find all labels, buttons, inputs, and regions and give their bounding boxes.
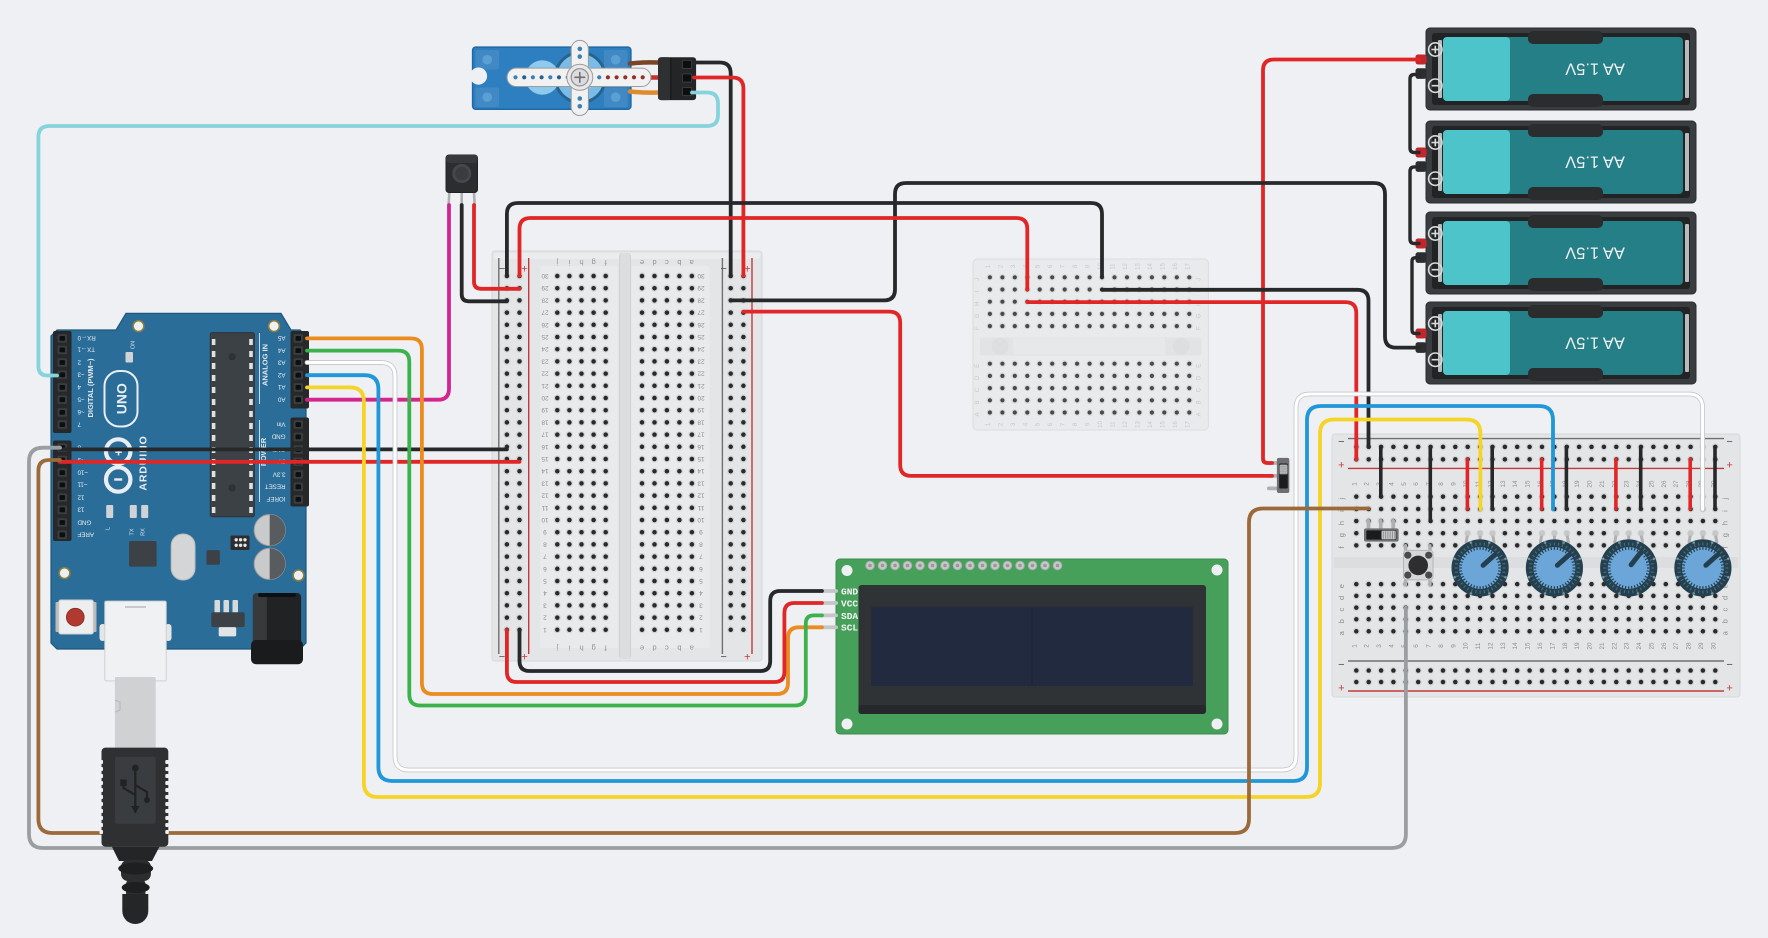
- svg-text:14: 14: [541, 467, 549, 474]
- breadboard BB3 top rail holes: [1353, 443, 1360, 450]
- wire Arduino GND (black) to BB1 left negative rail row16: [60, 447, 507, 451]
- Arduino analog/power header pin sockets: [294, 334, 304, 343]
- potentiometer RV3 pointer: [1631, 553, 1641, 565]
- svg-text:13: 13: [1135, 263, 1141, 270]
- svg-text:9: 9: [543, 528, 547, 535]
- svg-text:26: 26: [697, 321, 705, 328]
- Arduino ICSP header 2: [215, 600, 221, 613]
- svg-text:11: 11: [697, 504, 704, 511]
- svg-text:19: 19: [697, 406, 705, 413]
- servo mount notch: [470, 68, 487, 85]
- svg-text:20: 20: [541, 394, 549, 401]
- svg-text:17: 17: [1185, 263, 1191, 270]
- svg-text:17: 17: [697, 431, 705, 438]
- wire battery series link BAT3- to BAT4+: [1412, 258, 1419, 334]
- svg-text:16: 16: [1173, 263, 1179, 270]
- svg-text:7: 7: [1426, 644, 1433, 648]
- wire Arduino A4 (green) to LCD SDA: [307, 351, 822, 706]
- svg-text:GND: GND: [841, 586, 858, 597]
- battery BAT3 (AA 1.5V): [1426, 212, 1696, 294]
- LCD1 16x2 display board: [836, 559, 1228, 734]
- svg-text:12: 12: [77, 493, 84, 500]
- svg-text:+: +: [1726, 460, 1732, 472]
- svg-text:A: A: [975, 412, 981, 416]
- svg-text:4: 4: [77, 383, 81, 390]
- svg-text:20: 20: [697, 394, 705, 401]
- LCD1 top pin row: [866, 561, 875, 570]
- Arduino L TX RX LEDs: [106, 505, 113, 518]
- svg-text:b: b: [1721, 619, 1730, 623]
- svg-text:4: 4: [699, 589, 703, 596]
- svg-text:c: c: [1721, 607, 1730, 611]
- USB plug face with trident symbol: [115, 757, 156, 824]
- jumper BB3 col22 positive rail to row i (red): [1614, 459, 1618, 509]
- potentiometer RV4 pins: [1689, 534, 1691, 543]
- svg-text:23: 23: [697, 357, 705, 364]
- svg-text:AA 1.5V: AA 1.5V: [1565, 334, 1625, 352]
- svg-text:23: 23: [541, 357, 549, 364]
- svg-text:+: +: [521, 262, 527, 274]
- svg-text:8: 8: [1438, 644, 1445, 648]
- svg-text:15: 15: [1525, 480, 1532, 488]
- jumper BB3 col30 negative rail to row i (black): [1713, 447, 1717, 509]
- svg-text:g: g: [1721, 533, 1730, 537]
- svg-text:15: 15: [697, 455, 705, 462]
- svg-text:−: −: [720, 650, 726, 662]
- svg-text:~5: ~5: [77, 396, 85, 403]
- svg-text:24: 24: [1636, 642, 1643, 650]
- svg-text:8: 8: [699, 540, 703, 547]
- svg-text:5: 5: [699, 577, 703, 584]
- svg-text:29: 29: [1698, 642, 1705, 650]
- svg-text:+: +: [521, 650, 527, 662]
- svg-text:E: E: [1197, 364, 1203, 368]
- potentiometer RV3 pins: [1615, 534, 1617, 543]
- battery BAT1 (AA 1.5V): [1426, 28, 1696, 110]
- svg-text:d: d: [1337, 596, 1346, 600]
- LCD1 left pin stubs: [820, 589, 839, 593]
- svg-text:J: J: [1197, 278, 1203, 281]
- svg-text:G: G: [975, 313, 981, 318]
- Arduino USB-B socket: [100, 624, 107, 641]
- svg-text:TX: TX: [129, 528, 135, 535]
- breadboard BB1 left rail positive line: [528, 258, 530, 654]
- svg-text:26: 26: [1661, 642, 1668, 650]
- svg-text:5: 5: [543, 577, 547, 584]
- breadboard BB3 bottom rail holes: [1353, 667, 1360, 674]
- svg-text:18: 18: [541, 418, 549, 425]
- svg-text:~3: ~3: [77, 371, 85, 378]
- svg-text:+: +: [115, 444, 123, 459]
- svg-text:13: 13: [77, 506, 84, 513]
- wire IR sensor VCC (red) to BB1 left positive rail row29: [474, 205, 520, 289]
- svg-text:27: 27: [1673, 480, 1680, 488]
- svg-text:12: 12: [541, 492, 549, 499]
- svg-text:2: 2: [77, 358, 81, 365]
- svg-text:15: 15: [1525, 642, 1532, 650]
- Arduino capacitor C2: [254, 548, 285, 579]
- svg-text:d: d: [652, 258, 656, 267]
- svg-text:7: 7: [543, 553, 547, 560]
- svg-text:A: A: [1197, 412, 1203, 416]
- servo corner tabs: [476, 50, 500, 70]
- svg-text:12: 12: [1123, 263, 1129, 270]
- svg-text:C: C: [975, 387, 981, 392]
- svg-text:12: 12: [1488, 642, 1495, 650]
- svg-text:16: 16: [541, 443, 549, 450]
- svg-text:2: 2: [1364, 644, 1371, 648]
- battery BAT2 (AA 1.5V): [1426, 121, 1696, 203]
- wire Arduino A5 (orange) to LCD SCL: [307, 338, 822, 694]
- svg-text:27: 27: [697, 309, 705, 316]
- jumper BB3 col7 negative rail to row h (black): [1429, 447, 1433, 521]
- svg-text:TX→1: TX→1: [77, 346, 95, 353]
- breadboard BB3 top rail negative line: [1348, 438, 1724, 440]
- svg-text:g: g: [592, 258, 596, 267]
- svg-text:e: e: [640, 258, 644, 267]
- svg-text:13: 13: [541, 479, 549, 486]
- Arduino digital header block (pins 0-7): [53, 331, 72, 433]
- svg-text:30: 30: [697, 272, 705, 279]
- breadboard BB3 holes rows j-f: [1353, 493, 1360, 500]
- svg-text:d: d: [652, 644, 656, 653]
- jumper BB3 col18 negative rail to row i (black): [1565, 447, 1569, 509]
- svg-text:25: 25: [1648, 642, 1655, 650]
- Arduino analog header block (A5-A0): [291, 331, 310, 409]
- svg-text:−: −: [1338, 659, 1344, 671]
- svg-text:g: g: [592, 644, 596, 653]
- svg-text:6: 6: [699, 565, 703, 572]
- svg-text:2: 2: [543, 614, 547, 621]
- Arduino reset button: [56, 602, 63, 632]
- svg-text:SCL: SCL: [841, 623, 858, 634]
- wire servo signal (cyan) to Arduino pin 3: [38, 93, 718, 376]
- servo horn hub screw: [567, 64, 593, 90]
- svg-text:~10: ~10: [77, 468, 88, 475]
- svg-text:25: 25: [541, 333, 549, 340]
- LCD1 screen: [871, 607, 1193, 686]
- svg-text:D: D: [1197, 375, 1203, 380]
- svg-text:16: 16: [1537, 642, 1544, 650]
- svg-text:−: −: [1338, 436, 1344, 448]
- svg-text:27: 27: [1673, 642, 1680, 650]
- IR receiver U3 pins: [447, 193, 450, 207]
- svg-text:22: 22: [541, 370, 549, 377]
- svg-text:1: 1: [1351, 482, 1358, 486]
- svg-text:c: c: [665, 644, 669, 653]
- svg-text:14: 14: [697, 467, 705, 474]
- svg-text:8: 8: [543, 540, 547, 547]
- pushbutton S1 cap: [1408, 556, 1428, 576]
- svg-text:RX←0: RX←0: [77, 334, 96, 341]
- Arduino UNO mounting holes: [132, 320, 144, 332]
- USB cable shaft: [115, 677, 156, 748]
- svg-text:10: 10: [1463, 642, 1470, 650]
- svg-text:RESET: RESET: [265, 483, 286, 490]
- svg-text:30: 30: [1710, 642, 1717, 650]
- svg-text:3.3V: 3.3V: [272, 470, 286, 477]
- pushbutton S1 body: [1404, 550, 1434, 580]
- breadboard BB2 (mini) body: [973, 259, 1208, 430]
- svg-text:h: h: [579, 644, 583, 653]
- svg-text:24: 24: [541, 345, 549, 352]
- svg-text:−: −: [499, 650, 505, 662]
- breadboard BB1 rail holes: [503, 273, 510, 280]
- LCD1 mounting holes: [842, 565, 853, 576]
- svg-text:SDA: SDA: [841, 611, 858, 622]
- wire BB1 left negative rail to BB2 col10 (black): [507, 203, 1102, 277]
- svg-text:F: F: [1197, 326, 1203, 330]
- wire BB1 left positive rail to BB2 col4 (red): [520, 218, 1028, 290]
- breadboard BB3 bottom rail positive line: [1348, 690, 1724, 692]
- svg-text:J: J: [975, 278, 981, 281]
- svg-text:25: 25: [1648, 480, 1655, 488]
- svg-text:GND: GND: [271, 433, 285, 440]
- svg-text:j: j: [556, 258, 559, 267]
- svg-text:IOREF: IOREF: [266, 495, 285, 502]
- svg-text:DIGITAL (PWM~): DIGITAL (PWM~): [86, 358, 95, 418]
- svg-text:1: 1: [699, 626, 703, 633]
- svg-text:2: 2: [1364, 482, 1371, 486]
- svg-text:+: +: [744, 650, 750, 662]
- svg-text:9: 9: [699, 528, 703, 535]
- svg-text:j: j: [1337, 497, 1346, 500]
- USB plug strain relief: [112, 847, 159, 861]
- svg-text:1: 1: [1351, 644, 1358, 648]
- svg-text:b: b: [677, 644, 681, 653]
- slide switch SW2 knob: [1382, 531, 1396, 539]
- svg-text:19: 19: [1574, 480, 1581, 488]
- svg-text:g: g: [1337, 533, 1346, 537]
- Arduino crystal oscillator: [171, 534, 195, 580]
- breadboard BB3 bottom rail negative line: [1348, 660, 1724, 662]
- svg-text:19: 19: [1574, 642, 1581, 650]
- svg-text:13: 13: [697, 479, 705, 486]
- svg-text:G: G: [1197, 313, 1203, 318]
- svg-text:12: 12: [697, 492, 705, 499]
- svg-text:9: 9: [1450, 644, 1457, 648]
- Arduino capacitor C1: [254, 515, 285, 546]
- svg-text:+: +: [1338, 460, 1344, 472]
- svg-text:c: c: [665, 258, 669, 267]
- breadboard BB1 right half holes (cols a-e): [639, 273, 646, 280]
- svg-text:26: 26: [541, 321, 549, 328]
- breadboard BB1 right rail negative line: [721, 258, 723, 654]
- svg-text:23: 23: [1624, 480, 1631, 488]
- svg-text:3: 3: [699, 601, 703, 608]
- wire IR sensor OUT (magenta) to Arduino A0: [307, 205, 449, 400]
- svg-text:ANALOG IN: ANALOG IN: [261, 344, 270, 386]
- svg-text:Vin: Vin: [276, 420, 285, 427]
- svg-text:23: 23: [1624, 642, 1631, 650]
- servo lead wires to connector: [630, 62, 658, 63]
- servo motor M1 body: [473, 47, 631, 109]
- svg-text:d: d: [1721, 596, 1730, 600]
- potentiometer RV1 body: [1452, 539, 1509, 596]
- svg-text:3: 3: [543, 601, 547, 608]
- slide switch SW2 pins: [1367, 519, 1371, 529]
- svg-text:AA 1.5V: AA 1.5V: [1565, 60, 1625, 78]
- svg-text:e: e: [1337, 584, 1346, 588]
- svg-text:13: 13: [1500, 480, 1507, 488]
- svg-text:16: 16: [697, 443, 705, 450]
- jumper BB3 col16 positive rail to row i (red): [1540, 459, 1544, 509]
- wire Arduino pin 9 (brown) to BB3 row i col2: [38, 460, 1368, 833]
- breadboard BB3 center groove: [1334, 557, 1738, 568]
- breadboard BB1 center groove: [620, 253, 631, 659]
- svg-text:27: 27: [541, 309, 549, 316]
- svg-text:18: 18: [1562, 642, 1569, 650]
- wire Arduino pin 8 (gray) to BB3 row c col5: [29, 448, 1406, 848]
- svg-text:13: 13: [1135, 421, 1141, 428]
- svg-text:4: 4: [1388, 482, 1395, 486]
- Arduino UNO logo text: [105, 371, 138, 427]
- svg-text:7: 7: [77, 420, 81, 427]
- potentiometer RV2 knob: [1533, 547, 1575, 589]
- Arduino power header block: [291, 418, 310, 507]
- Arduino SMD component: [207, 550, 220, 565]
- svg-text:20: 20: [1587, 642, 1594, 650]
- svg-text:L: L: [106, 527, 112, 530]
- svg-text:3: 3: [1376, 644, 1383, 648]
- svg-text:−: −: [499, 262, 505, 274]
- svg-text:11: 11: [541, 504, 548, 511]
- Arduino power jack: [253, 593, 301, 649]
- potentiometer RV4 body: [1674, 539, 1731, 596]
- svg-text:14: 14: [1148, 263, 1154, 270]
- svg-text:30: 30: [541, 272, 549, 279]
- svg-text:C: C: [1197, 387, 1203, 392]
- svg-text:4: 4: [1388, 644, 1395, 648]
- potentiometer RV2 pins: [1541, 534, 1543, 543]
- potentiometer RV3 knob: [1608, 547, 1650, 589]
- svg-text:6: 6: [1413, 644, 1420, 648]
- svg-text:UNO: UNO: [114, 383, 130, 414]
- svg-text:A2: A2: [277, 371, 285, 378]
- USB plug body: [102, 748, 169, 847]
- Arduino ATmega328 chip U2: [210, 333, 254, 517]
- svg-text:11: 11: [1111, 263, 1117, 270]
- svg-text:14: 14: [1512, 480, 1519, 488]
- svg-text:+: +: [1726, 683, 1732, 695]
- svg-text:6: 6: [1413, 482, 1420, 486]
- svg-text:~6: ~6: [77, 408, 85, 415]
- wire Arduino A3 (white) to BB3 row i col29: [307, 363, 1703, 771]
- svg-text:10: 10: [541, 516, 549, 523]
- svg-text:19: 19: [541, 406, 549, 413]
- svg-text:GND: GND: [77, 518, 91, 525]
- breadboard BB1 left half holes (cols f-j): [554, 273, 561, 280]
- svg-text:9: 9: [1450, 482, 1457, 486]
- breadboard BB2 holes top half: [987, 274, 994, 281]
- svg-text:−: −: [1726, 436, 1732, 448]
- svg-text:A1: A1: [277, 383, 285, 390]
- Arduino UNO U1 board: [51, 313, 306, 649]
- breadboard BB1 (large, vertical) body: [492, 251, 762, 661]
- svg-text:A3: A3: [277, 358, 285, 365]
- jumper BB3 col28 positive rail to row i (red): [1688, 459, 1692, 509]
- wire BB1 bottom negative col to LCD VCC (red): [507, 603, 822, 682]
- jumper BB3 col3 negative rail to row j (black): [1379, 447, 1383, 497]
- LCD1 bezel: [859, 585, 1207, 714]
- svg-text:A4: A4: [277, 346, 285, 353]
- svg-text:17: 17: [1185, 421, 1191, 428]
- svg-text:RX: RX: [141, 528, 147, 536]
- servo horn dots: [513, 75, 517, 79]
- svg-text:AA 1.5V: AA 1.5V: [1565, 153, 1625, 171]
- svg-text:22: 22: [697, 370, 705, 377]
- USB cable tip: [122, 894, 148, 924]
- svg-text:16: 16: [1173, 421, 1179, 428]
- Arduino ICSP header 1: [231, 536, 250, 551]
- svg-text:h: h: [1721, 521, 1730, 525]
- breadboard BB3 top rail positive line: [1348, 467, 1724, 469]
- svg-text:15: 15: [541, 455, 549, 462]
- servo gear circles: [554, 51, 607, 104]
- svg-text:20: 20: [1587, 480, 1594, 488]
- breadboard BB3 holes rows e-a: [1353, 581, 1360, 588]
- Arduino infinity logo: [106, 439, 130, 463]
- wire battery BAT4 - (black) to BB1 right negative rail row28: [731, 183, 1419, 348]
- battery BAT4 (AA 1.5V): [1426, 302, 1696, 384]
- svg-text:1: 1: [543, 626, 547, 633]
- breadboard BB1 right rail positive line: [751, 258, 753, 654]
- slide switch SW1 knob: [1280, 465, 1288, 475]
- jumper BB3 col10 positive rail to row i (red): [1466, 459, 1470, 509]
- svg-text:29: 29: [541, 284, 549, 291]
- svg-text:e: e: [640, 644, 644, 653]
- potentiometer RV1 pins: [1466, 534, 1468, 543]
- Arduino digital header block (pins 8-13, GND, AREF): [53, 441, 72, 542]
- svg-text:10: 10: [697, 516, 705, 523]
- wire Arduino A1 (yellow) to BB3 row i col11: [307, 387, 1480, 797]
- svg-text:H: H: [975, 302, 981, 306]
- servo horn: [507, 68, 651, 86]
- slide switch SW1 (power) pins: [1267, 461, 1278, 465]
- svg-text:28: 28: [541, 296, 549, 303]
- wire BB2 col4 (red) to BB3 top positive rail col1: [1027, 302, 1356, 459]
- svg-text:21: 21: [697, 382, 705, 389]
- svg-text:14: 14: [1512, 642, 1519, 650]
- svg-text:F: F: [975, 326, 981, 330]
- wire battery series link BAT1- to BAT2+: [1410, 75, 1419, 153]
- wire Arduino 5V (red) to BB1 left positive rail row15: [60, 460, 520, 464]
- svg-text:7: 7: [699, 553, 703, 560]
- svg-text:j: j: [556, 644, 559, 653]
- svg-text:AA 1.5V: AA 1.5V: [1565, 244, 1625, 262]
- svg-text:+: +: [1338, 683, 1344, 695]
- svg-text:29: 29: [697, 284, 705, 291]
- wire Arduino A2 (blue) to BB3 row i col17: [307, 375, 1553, 781]
- potentiometer RV2 body: [1526, 539, 1583, 596]
- IR receiver U3 body: [446, 155, 478, 193]
- svg-text:10: 10: [1098, 421, 1104, 428]
- svg-text:21: 21: [541, 382, 549, 389]
- svg-text:VCC: VCC: [841, 598, 858, 609]
- svg-text:17: 17: [1549, 642, 1556, 650]
- svg-text:15: 15: [1160, 263, 1166, 270]
- svg-text:~11: ~11: [77, 481, 88, 488]
- wire switch SW1 pin2 (red) to BB1 right positive rail row27: [743, 312, 1272, 476]
- svg-text:4: 4: [543, 589, 547, 596]
- potentiometer RV4 pointer: [1706, 555, 1718, 565]
- svg-text:11: 11: [1111, 421, 1117, 428]
- svg-text:24: 24: [697, 345, 705, 352]
- svg-text:j: j: [1721, 497, 1730, 500]
- svg-text:8: 8: [1438, 482, 1445, 486]
- Arduino digital header pin sockets: [58, 334, 68, 343]
- svg-text:25: 25: [697, 333, 705, 340]
